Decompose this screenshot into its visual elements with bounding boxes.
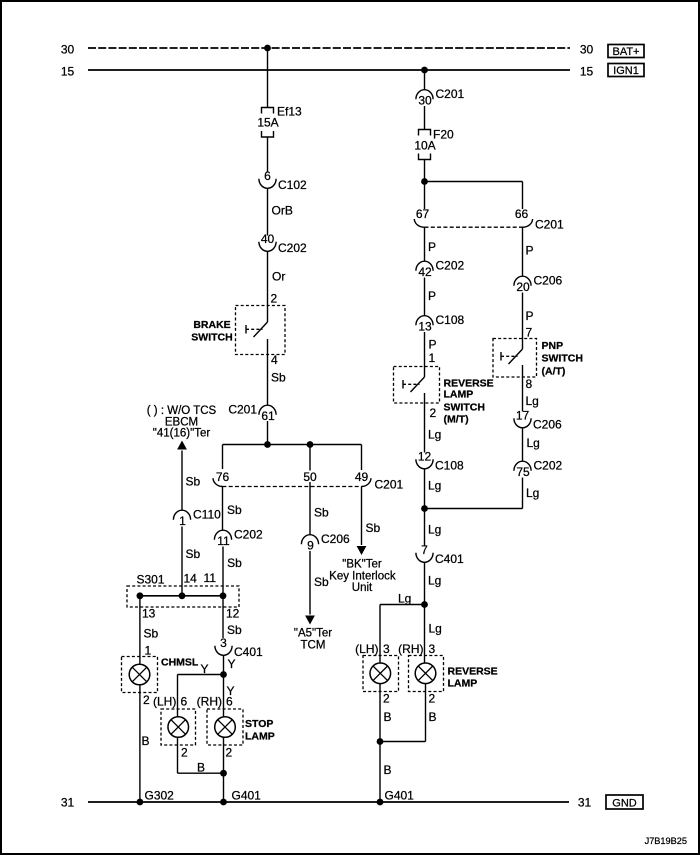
svg-text:C201: C201 xyxy=(228,403,257,417)
svg-text:Sb: Sb xyxy=(186,475,201,489)
svg-text:Lg: Lg xyxy=(428,523,441,537)
svg-text:9: 9 xyxy=(307,539,314,553)
svg-text:C206: C206 xyxy=(533,418,562,432)
svg-text:Ef13: Ef13 xyxy=(277,105,302,119)
svg-text:10A: 10A xyxy=(414,139,435,153)
svg-text:LAMP: LAMP xyxy=(448,678,478,690)
svg-text:G302: G302 xyxy=(145,789,175,803)
svg-text:12: 12 xyxy=(226,607,240,621)
svg-text:Lg: Lg xyxy=(398,592,411,606)
svg-text:(A/T): (A/T) xyxy=(542,366,566,378)
svg-text:Unit: Unit xyxy=(352,582,373,594)
svg-text:6: 6 xyxy=(181,695,188,709)
svg-text:12: 12 xyxy=(418,450,432,464)
svg-text:4: 4 xyxy=(271,353,278,367)
svg-text:42: 42 xyxy=(418,265,432,279)
svg-text:40: 40 xyxy=(261,232,275,246)
svg-text:30: 30 xyxy=(580,43,594,57)
svg-text:C401: C401 xyxy=(234,645,263,659)
svg-text:F20: F20 xyxy=(433,128,454,142)
svg-text:Lg: Lg xyxy=(526,486,539,500)
svg-text:Sb: Sb xyxy=(271,371,286,385)
svg-text:REVERSE: REVERSE xyxy=(448,666,498,678)
svg-text:2: 2 xyxy=(429,692,436,706)
svg-text:BAT+: BAT+ xyxy=(612,46,639,58)
svg-text:"A5"Ter: "A5"Ter xyxy=(294,628,332,640)
svg-text:1: 1 xyxy=(429,351,436,365)
svg-text:7: 7 xyxy=(421,543,428,557)
svg-text:SWITCH: SWITCH xyxy=(444,402,485,414)
svg-text:C202: C202 xyxy=(534,459,563,473)
svg-text:IGN1: IGN1 xyxy=(613,65,639,77)
svg-text:LAMP: LAMP xyxy=(245,731,275,743)
svg-text:C201: C201 xyxy=(375,478,404,492)
svg-text:Sb: Sb xyxy=(144,627,159,641)
svg-text:15A: 15A xyxy=(257,115,278,129)
svg-text:1: 1 xyxy=(179,514,186,528)
svg-text:P: P xyxy=(526,244,534,258)
svg-text:SWITCH: SWITCH xyxy=(191,332,232,344)
svg-text:BRAKE: BRAKE xyxy=(193,319,230,331)
svg-text:C401: C401 xyxy=(435,552,464,566)
svg-text:Lg: Lg xyxy=(428,428,441,442)
svg-text:76: 76 xyxy=(216,470,230,484)
svg-text:G401: G401 xyxy=(232,789,262,803)
svg-text:13: 13 xyxy=(418,320,432,334)
svg-text:Sb: Sb xyxy=(314,506,329,520)
svg-text:"41(16)"Ter: "41(16)"Ter xyxy=(153,427,211,439)
svg-text:2: 2 xyxy=(226,746,233,760)
svg-text:11: 11 xyxy=(217,534,230,548)
svg-text:Lg: Lg xyxy=(428,479,441,493)
svg-text:11: 11 xyxy=(204,571,217,585)
svg-text:8: 8 xyxy=(526,377,533,391)
svg-text:Y: Y xyxy=(201,662,209,676)
svg-text:17: 17 xyxy=(516,409,530,423)
svg-text:B: B xyxy=(142,734,150,748)
svg-text:30: 30 xyxy=(61,43,75,57)
svg-text:13: 13 xyxy=(142,607,156,621)
svg-text:30: 30 xyxy=(418,94,432,108)
svg-text:2: 2 xyxy=(271,292,278,306)
svg-text:Sb: Sb xyxy=(366,521,381,535)
svg-text:66: 66 xyxy=(515,207,529,221)
svg-text:C110: C110 xyxy=(193,508,221,522)
svg-text:"BK"Ter: "BK"Ter xyxy=(342,559,382,571)
svg-text:6: 6 xyxy=(226,695,233,709)
svg-text:C202: C202 xyxy=(436,259,465,273)
svg-text:Lg: Lg xyxy=(527,436,540,450)
svg-text:C201: C201 xyxy=(436,87,465,101)
svg-text:C202: C202 xyxy=(278,241,307,255)
svg-text:(RH): (RH) xyxy=(398,642,423,656)
svg-text:3: 3 xyxy=(429,642,436,656)
svg-text:2: 2 xyxy=(181,746,188,760)
svg-text:P: P xyxy=(526,309,534,323)
svg-text:P: P xyxy=(429,338,437,352)
svg-text:(LH): (LH) xyxy=(153,695,176,709)
svg-text:B: B xyxy=(384,763,392,777)
svg-text:(M/T): (M/T) xyxy=(444,414,469,426)
svg-text:1: 1 xyxy=(145,644,152,658)
svg-text:TCM: TCM xyxy=(301,640,326,652)
svg-text:15: 15 xyxy=(61,65,75,79)
svg-text:C102: C102 xyxy=(278,178,307,192)
svg-text:3: 3 xyxy=(383,642,390,656)
svg-text:Key Interlock: Key Interlock xyxy=(329,571,396,583)
svg-text:Sb: Sb xyxy=(227,503,242,517)
svg-text:J7B19B25: J7B19B25 xyxy=(645,836,687,846)
svg-text:GND: GND xyxy=(612,798,637,810)
svg-text:2: 2 xyxy=(430,406,437,420)
svg-text:Lg: Lg xyxy=(428,574,441,588)
svg-text:B: B xyxy=(429,710,437,724)
svg-text:61: 61 xyxy=(261,409,275,423)
svg-text:Sb: Sb xyxy=(314,575,329,589)
svg-text:C108: C108 xyxy=(435,459,464,473)
svg-text:C108: C108 xyxy=(436,313,465,327)
svg-text:Sb: Sb xyxy=(227,556,242,570)
svg-text:C206: C206 xyxy=(321,532,350,546)
svg-text:50: 50 xyxy=(303,470,317,484)
svg-text:C202: C202 xyxy=(234,528,263,542)
svg-text:STOP: STOP xyxy=(245,718,273,730)
svg-text:Or: Or xyxy=(272,270,285,284)
svg-text:31: 31 xyxy=(578,796,592,810)
svg-text:CHMSL: CHMSL xyxy=(161,657,199,669)
svg-text:49: 49 xyxy=(355,470,369,484)
svg-text:2: 2 xyxy=(143,693,150,707)
svg-text:( ) : W/O TCS: ( ) : W/O TCS xyxy=(147,405,217,417)
svg-text:P: P xyxy=(428,289,436,303)
svg-text:6: 6 xyxy=(264,169,271,183)
svg-text:Y: Y xyxy=(228,657,236,671)
svg-text:(RH): (RH) xyxy=(197,695,222,709)
svg-text:2: 2 xyxy=(383,692,390,706)
svg-text:PNP: PNP xyxy=(542,340,564,352)
svg-text:C206: C206 xyxy=(534,274,563,288)
svg-text:7: 7 xyxy=(526,326,533,340)
svg-text:Sb: Sb xyxy=(186,547,201,561)
svg-text:OrB: OrB xyxy=(272,204,293,218)
svg-text:P: P xyxy=(428,240,436,254)
svg-text:31: 31 xyxy=(61,796,75,810)
svg-text:15: 15 xyxy=(580,65,594,79)
svg-text:75: 75 xyxy=(516,465,530,479)
svg-text:S301: S301 xyxy=(137,573,165,587)
svg-text:G401: G401 xyxy=(385,789,415,803)
svg-text:20: 20 xyxy=(516,280,530,294)
svg-text:LAMP: LAMP xyxy=(444,389,474,401)
svg-text:C201: C201 xyxy=(535,218,564,232)
svg-text:B: B xyxy=(384,710,392,724)
svg-text:(LH): (LH) xyxy=(355,642,378,656)
svg-text:SWITCH: SWITCH xyxy=(542,353,583,365)
svg-text:3: 3 xyxy=(220,636,227,650)
svg-text:Lg: Lg xyxy=(526,394,539,408)
svg-text:Lg: Lg xyxy=(429,622,442,636)
svg-text:14: 14 xyxy=(184,572,198,586)
svg-text:Sb: Sb xyxy=(227,623,242,637)
svg-text:B: B xyxy=(197,761,205,775)
svg-text:67: 67 xyxy=(416,207,430,221)
